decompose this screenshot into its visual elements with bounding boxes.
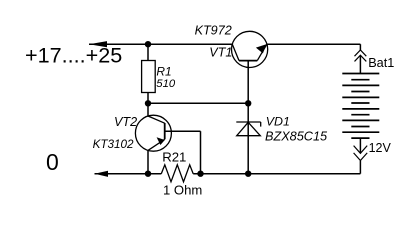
resistor R21 (161, 165, 193, 182)
battery top arrow (355, 50, 367, 61)
resistor R1 (142, 61, 156, 93)
wire battery top drop (359, 44, 361, 50)
svg-text:VD1: VD1 (266, 115, 290, 129)
wire battery bottom rise (359, 138, 361, 153)
wire VT2 collector lead (147, 103, 149, 116)
arrow input + (89, 41, 107, 47)
zener VD1 (236, 122, 260, 136)
svg-text:0: 0 (46, 149, 59, 175)
wire R1 bottom lead (147, 93, 149, 104)
svg-text:KT972: KT972 (195, 24, 232, 38)
transistor VT2 (135, 115, 171, 151)
arrow input 0 (95, 171, 109, 177)
wire top rail right (267, 43, 361, 45)
wire bottom rail right (193, 173, 360, 175)
svg-text:KT3102: KT3102 (93, 138, 134, 151)
wire mid rail (148, 102, 248, 104)
wire VT2 base lead horizontal (165, 130, 201, 132)
svg-text:VT1: VT1 (209, 45, 232, 59)
node dot R21 right (197, 171, 203, 177)
wire R1 top lead (147, 44, 149, 60)
svg-text:BZX85C15: BZX85C15 (265, 130, 328, 144)
node dot R1 top (145, 41, 151, 47)
wire VT2 emitter lead (147, 150, 149, 173)
svg-text:+17....+25: +17....+25 (25, 43, 122, 68)
svg-text:R1: R1 (156, 64, 171, 78)
svg-text:VT2: VT2 (114, 115, 137, 129)
wire VD1 vertical (247, 103, 249, 173)
wire VT1 base lead (247, 61, 249, 104)
svg-text:1 Ohm: 1 Ohm (163, 182, 202, 197)
svg-text:R21: R21 (162, 149, 186, 164)
svg-text:Bat1: Bat1 (368, 56, 394, 70)
node dot VD1 top (245, 100, 251, 106)
svg-text:12V: 12V (369, 141, 392, 155)
battery bottom arrow 12V (354, 146, 368, 161)
wire top rail left (89, 43, 232, 45)
node dot R21 left (145, 171, 151, 177)
wire bottom rail left (95, 173, 162, 175)
wire VT2 base lead vertical (200, 131, 202, 174)
battery Bat1 (342, 74, 379, 139)
node dot VD1 bottom (245, 171, 251, 177)
svg-text:510: 510 (156, 78, 176, 90)
transistor VT1 (232, 31, 268, 67)
node dot R1 bottom (145, 100, 151, 106)
